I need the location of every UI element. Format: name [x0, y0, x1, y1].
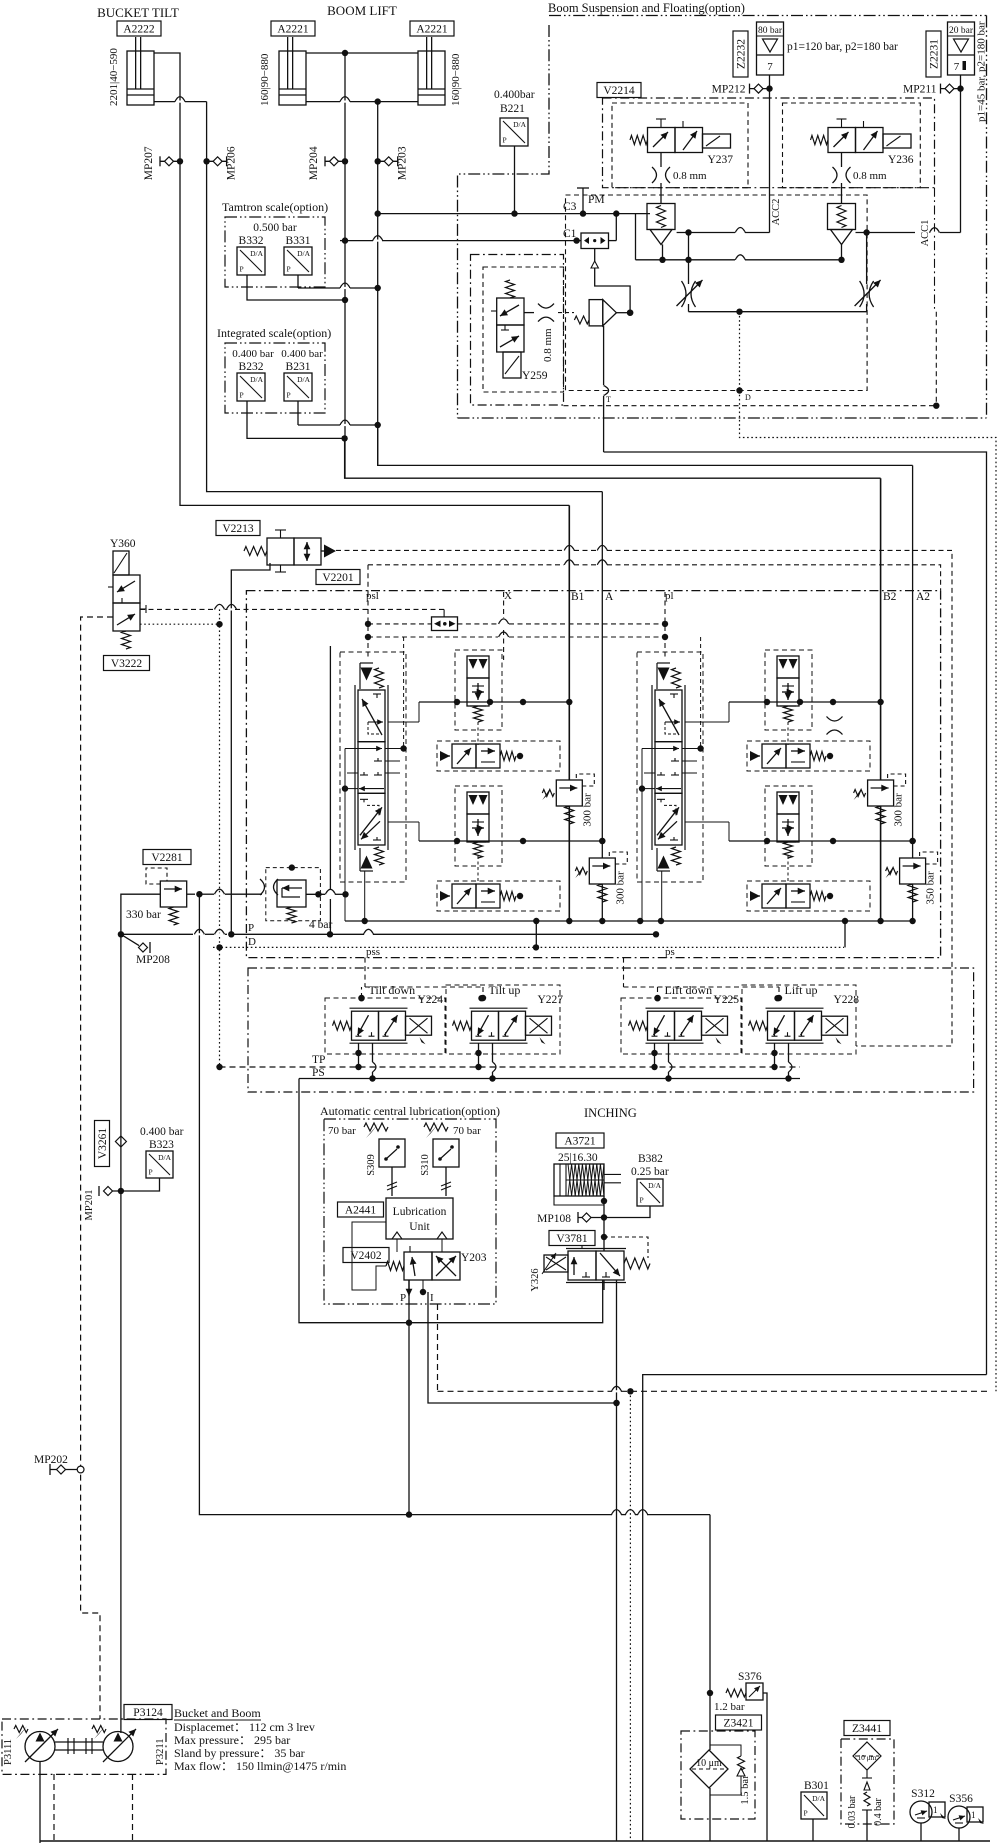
valve Tilt up: [453, 983, 564, 1044]
wire B221 down to C3: [514, 146, 516, 214]
port relief valve lower 300 bar: [575, 852, 627, 905]
svg-text:D/A: D/A: [250, 249, 264, 258]
svg-text:A2441: A2441: [345, 1205, 377, 1217]
svg-text:P: P: [400, 1292, 406, 1304]
valve 4 bar: [266, 864, 333, 931]
svg-text:1: 1: [933, 1805, 938, 1815]
svg-text:pl: pl: [665, 590, 674, 602]
bypass 1.5 bar: [738, 1756, 745, 1770]
wire poppet2 output to ACC1: [856, 232, 916, 234]
svg-text:Tamtron scale(option): Tamtron scale(option): [222, 200, 328, 214]
svg-text:MP203: MP203: [397, 146, 409, 180]
wire boom piston-side rail y102 with crossing: [306, 101, 340, 103]
svg-text:ACC1: ACC1: [920, 220, 931, 247]
wire accumulator2 down ACC1: [960, 75, 962, 233]
label A2221 (right): [410, 21, 454, 36]
svg-text:PS: PS: [312, 1067, 325, 1079]
test point MP212: [712, 84, 770, 96]
orifice right module: [827, 717, 843, 722]
wire spool left loop: [641, 749, 643, 789]
wire A trunk through lower relief: [601, 492, 603, 858]
svg-text:2201|40−590: 2201|40−590: [108, 48, 120, 106]
wire drain to filter x710: [709, 1515, 711, 1750]
port relief valve lower 350 bar: [886, 852, 938, 905]
wire module rail lower y841: [419, 840, 602, 842]
svg-text:Y228: Y228: [834, 994, 860, 1006]
svg-text:0.03 bar: 0.03 bar: [847, 1795, 858, 1828]
wire spool left loop down to tank rail: [344, 789, 346, 921]
svg-text:0.8 mm: 0.8 mm: [853, 170, 887, 182]
wire bucket rod-side to node x180: [154, 53, 180, 161]
sensor B232: [237, 373, 265, 401]
svg-text:160|90−880: 160|90−880: [450, 53, 462, 106]
svg-text:0.4 bar: 0.4 bar: [873, 1797, 884, 1825]
switch S309: [379, 1139, 405, 1167]
wire right spool bottom to rail: [661, 871, 663, 921]
dashed box anti-cav upper: [747, 741, 870, 771]
svg-text:10 μm: 10 μm: [696, 1758, 722, 1769]
box Tilt up dashed: [446, 985, 560, 1054]
wire tank rail y921: [345, 920, 913, 922]
svg-text:Z3441: Z3441: [852, 1723, 882, 1735]
anti-cavitation valve lower: [440, 884, 523, 908]
svg-text:0.500 bar: 0.500 bar: [253, 222, 297, 234]
port relief valve upper 300 bar: [854, 774, 906, 827]
box Lift up dashed: [742, 985, 856, 1054]
wire inching left port down: [603, 1280, 605, 1290]
cylinder A2222 bucket tilt: [127, 37, 154, 105]
pilot dashed to spool mid port: [700, 637, 702, 749]
wire cartridge verticals: [477, 722, 479, 745]
orifice 0.8mm for Y236: [841, 153, 843, 168]
flow valve branch ACC2: [677, 280, 703, 307]
svg-text:B2: B2: [883, 591, 897, 603]
svg-text:MP201: MP201: [84, 1190, 95, 1221]
svg-text:7: 7: [954, 61, 960, 73]
wire cartridge verticals: [787, 722, 789, 745]
wire inching valve outputs: [603, 1279, 605, 1281]
svg-text:S312: S312: [911, 1788, 935, 1800]
svg-text:350 bar: 350 bar: [925, 871, 937, 905]
svg-text:70 bar: 70 bar: [453, 1125, 481, 1137]
orifice before 4 bar valve: [260, 879, 265, 895]
svg-text:V2281: V2281: [151, 852, 183, 864]
svg-text:P3124: P3124: [133, 1707, 163, 1719]
svg-text:S356: S356: [949, 1793, 973, 1805]
flow control valve right: [866, 233, 868, 285]
dashed box anti-cav upper: [437, 741, 560, 771]
svg-text:Bucket and Boom: Bucket and Boom: [174, 1706, 261, 1720]
svg-text:B332: B332: [239, 235, 264, 247]
svg-text:Max pressure： 295 bar: Max pressure： 295 bar: [174, 1733, 290, 1747]
box V2214 dash-dot: [603, 98, 935, 188]
wire 4bar output to spool loop: [306, 893, 325, 895]
valve Y203: [386, 1246, 487, 1280]
svg-text:D: D: [745, 393, 751, 402]
flow control valve left: [688, 233, 690, 285]
gauge S356: [948, 1793, 984, 1828]
svg-text:MP207: MP207: [143, 146, 155, 180]
svg-text:MP211: MP211: [903, 84, 937, 96]
wire P drain down: [408, 1323, 410, 1515]
relief valve V2281 330 bar: [126, 868, 187, 925]
svg-text:D/A: D/A: [297, 375, 311, 384]
label Z2231: [926, 31, 941, 77]
svg-text:0.400 bar: 0.400 bar: [140, 1126, 184, 1138]
svg-text:p1=45 bar, p2=180 bar: p1=45 bar, p2=180 bar: [976, 21, 988, 122]
box Y259 dashed: [483, 267, 564, 392]
svg-text:B232: B232: [239, 361, 264, 373]
wire module rail lower y841: [729, 840, 913, 842]
anti-cavitation valve upper: [750, 744, 833, 768]
wire tank line bottom: [40, 1840, 990, 1842]
orifice box near X: [432, 617, 458, 631]
main spool valve: [342, 663, 400, 871]
svg-text:B382: B382: [638, 1153, 663, 1165]
pilot dashed feeds to valves: [364, 958, 366, 987]
wire right T return corner: [643, 1375, 987, 1841]
svg-text:D/A: D/A: [158, 1153, 172, 1162]
wire B232 to node x345 y438: [247, 401, 345, 438]
svg-text:300 bar: 300 bar: [614, 871, 626, 905]
valve Y259: [491, 280, 548, 382]
svg-text:Boom Suspension and Floatin: Boom Suspension and Floating(option): [548, 1, 745, 15]
svg-text:S309: S309: [366, 1154, 377, 1176]
label V2281: [143, 850, 191, 865]
svg-text:X: X: [504, 590, 512, 602]
wire B231 to A2 line y425: [297, 401, 299, 425]
svg-text:INCHING: INCHING: [584, 1106, 637, 1120]
label V2402: [343, 1248, 389, 1263]
svg-text:BOOM LIFT: BOOM LIFT: [327, 3, 397, 18]
wire relief input from x120: [121, 894, 160, 934]
svg-text:D/A: D/A: [250, 375, 264, 384]
box Lubrication Unit: [386, 1198, 453, 1239]
dashed bottom rail y405.7: [564, 405, 937, 407]
svg-text:Y225: Y225: [714, 994, 740, 1006]
svg-text:Y224: Y224: [418, 994, 444, 1006]
svg-text:MP206: MP206: [226, 146, 238, 180]
box Lift down dashed: [621, 998, 741, 1054]
port PM: [582, 188, 584, 214]
box Y237 dashed: [612, 103, 748, 188]
filter element Z3421: [690, 1750, 728, 1788]
wire P riser x330 into block: [329, 646, 331, 889]
dashed box anti-cav lower: [437, 881, 560, 911]
svg-text:10 μm: 10 μm: [857, 1753, 876, 1762]
label A3721: [556, 1133, 604, 1148]
svg-text:Z2232: Z2232: [736, 39, 748, 69]
label A2221 (left): [271, 21, 315, 36]
svg-text:A2221: A2221: [277, 24, 309, 36]
svg-text:P: P: [240, 391, 244, 400]
pilot dashed to spool mid port: [403, 637, 405, 749]
svg-text:20 bar: 20 bar: [949, 26, 974, 36]
test point MP203: [378, 146, 409, 180]
svg-text:P: P: [149, 1168, 153, 1177]
wire B382 to node: [604, 1206, 650, 1218]
orifice 0.8mm for Y237: [660, 153, 662, 168]
V2201 main box dash-dot: [246, 591, 940, 958]
svg-text:0.8 mm: 0.8 mm: [542, 328, 554, 362]
label V2201: [316, 570, 360, 585]
wire orifice to C3 node: [615, 214, 617, 241]
svg-text:B231: B231: [286, 361, 311, 373]
dashed rail y637 between modules: [368, 636, 498, 638]
cylinder A2221 boom lift left: [279, 37, 306, 105]
box Y236 dashed: [783, 103, 921, 188]
wire module rail upper y702: [419, 701, 569, 703]
svg-text:T: T: [606, 395, 611, 404]
valve Y326 inching: [530, 1246, 650, 1292]
svg-text:P: P: [240, 265, 244, 274]
svg-text:P: P: [503, 136, 507, 145]
wire P into spools: [655, 933, 657, 935]
label V3261: [95, 1121, 110, 1167]
dashed box around upper cartridge: [765, 650, 812, 730]
wire bottom rail y311.7: [689, 311, 867, 313]
svg-text:Automatic central lubricatio: Automatic central lubrication(option): [320, 1104, 500, 1118]
svg-text:MP204: MP204: [308, 146, 320, 180]
svg-text:330 bar: 330 bar: [126, 909, 161, 921]
svg-text:0.400bar: 0.400bar: [494, 89, 535, 101]
label V2213: [216, 521, 260, 536]
svg-text:P: P: [287, 265, 291, 274]
svg-text:0.25 bar: 0.25 bar: [631, 1166, 669, 1178]
svg-text:Z3421: Z3421: [723, 1718, 753, 1730]
svg-text:V2213: V2213: [222, 523, 254, 535]
svg-text:ps: ps: [665, 946, 675, 958]
pilot dashed Y360 to psl: [140, 608, 214, 610]
svg-text:P: P: [287, 391, 291, 400]
label Z3441: [844, 1721, 890, 1736]
svg-text:P: P: [804, 1809, 808, 1818]
pilot valve tank ports to TP/PS: [358, 1043, 360, 1067]
poppet valve at Y259 output: [574, 300, 616, 326]
svg-text:A2221: A2221: [416, 24, 448, 36]
dashed pilot box around spool: [637, 652, 703, 882]
wire S376 right down to tank: [763, 1693, 767, 1841]
port relief valve upper 300 bar: [542, 774, 594, 827]
wire lube loop left: [352, 1222, 386, 1290]
valve Lift down: [629, 983, 740, 1044]
wire unit to valve: [396, 1239, 398, 1252]
node D on inner box: [736, 387, 742, 393]
wire bucket piston-side to node x206 with crossing: [154, 101, 175, 103]
wire I line right: [428, 1292, 617, 1403]
wire spool to rails: [685, 721, 729, 723]
svg-text:Lift down: Lift down: [665, 983, 713, 997]
filter Z3421 box: [681, 1731, 755, 1819]
pump P3111: [14, 1726, 58, 1763]
svg-text:Y237: Y237: [708, 154, 734, 166]
pilot dashed from V2213 right to x956: [336, 549, 564, 551]
svg-text:I: I: [430, 1292, 434, 1304]
wire x120 pump pressure line: [120, 934, 122, 1733]
wire spool left loop down to tank rail: [641, 789, 643, 921]
svg-text:Displacemet： 112 cm 3 lrev: Displacemet： 112 cm 3 lrev: [174, 1720, 315, 1734]
svg-text:Y203: Y203: [461, 1252, 487, 1264]
label V3222: [104, 656, 150, 671]
inching unit A3721 spring stack: [554, 1164, 621, 1205]
svg-text:Integrated scale(option): Integrated scale(option): [217, 326, 331, 340]
gauge S312: [910, 1788, 946, 1823]
check cartridge lower: [777, 792, 799, 858]
wire relief output to 4bar: [187, 893, 195, 895]
svg-text:Sland by pressure： 35 bar: Sland by pressure： 35 bar: [174, 1746, 305, 1760]
svg-text:V3781: V3781: [556, 1233, 588, 1245]
svg-text:V3261: V3261: [97, 1128, 109, 1160]
test point MP211: [903, 84, 960, 96]
check cartridge lower: [467, 792, 489, 858]
svg-text:MP212: MP212: [712, 84, 746, 96]
wire boom B2 feed y478 to x880: [345, 438, 881, 478]
wire left spool bottom to rail: [364, 871, 366, 921]
label Z2232: [733, 31, 748, 77]
valve V2213: [244, 530, 336, 572]
pilot dashed pl down to right spool: [664, 592, 666, 660]
accumulator 20 bar: [948, 22, 975, 75]
svg-text:A3721: A3721: [564, 1136, 596, 1148]
sensor B231: [284, 373, 312, 401]
wire B323 to x120: [121, 1178, 160, 1191]
wire accumulator1 down ACC2: [769, 75, 771, 233]
poppet valve Y237 branch: [647, 204, 675, 245]
wire A trunk through lower relief: [912, 465, 914, 858]
svg-text:TP: TP: [312, 1054, 325, 1066]
poppet valve Y236 branch: [828, 204, 856, 245]
test point V3261 diamond: [115, 1136, 126, 1147]
pump P3211: [92, 1726, 136, 1763]
sensor B332: [237, 247, 265, 275]
svg-text:MP202: MP202: [34, 1454, 68, 1466]
wire poppet output to T: [616, 312, 630, 314]
switch S310: [433, 1139, 459, 1167]
line ACC1 dash-dot: [934, 188, 936, 312]
dashed box around lower cartridge: [455, 786, 502, 866]
wire module rail upper y702: [729, 701, 881, 703]
svg-text:Lubrication: Lubrication: [393, 1206, 447, 1218]
label A2441: [338, 1202, 384, 1217]
wire boom rod-side rail y53: [306, 52, 418, 54]
svg-text:A2222: A2222: [123, 24, 155, 36]
svg-text:P3211: P3211: [155, 1739, 166, 1765]
anti-cavitation valve upper: [440, 744, 523, 768]
svg-text:Y227: Y227: [538, 994, 564, 1006]
svg-text:0.8 mm: 0.8 mm: [673, 170, 707, 182]
svg-text:B221: B221: [500, 103, 525, 115]
dashed box around upper cartridge: [455, 650, 502, 730]
label V2214: [597, 83, 641, 98]
valve Lift up: [749, 983, 860, 1044]
wire poppet1 output to ACC2: [677, 232, 735, 234]
svg-text:D/A: D/A: [648, 1181, 662, 1190]
dashed rail y623.9 between modules: [368, 623, 432, 625]
orifice box on C1: [581, 233, 609, 249]
dashed vertical x936 to flow valve right: [935, 312, 937, 406]
svg-text:S376: S376: [738, 1671, 762, 1683]
wire switches down with break: [391, 1167, 393, 1196]
wire poppet bottoms rail y259.8: [615, 213, 617, 215]
box Tilt down dashed: [325, 998, 445, 1054]
svg-text:B1: B1: [571, 591, 585, 603]
svg-text:p1=120 bar, p2=180 bar: p1=120 bar, p2=180 bar: [787, 41, 898, 53]
svg-text:P3111: P3111: [3, 1739, 14, 1765]
svg-text:V2201: V2201: [322, 572, 354, 584]
svg-text:D/A: D/A: [812, 1794, 826, 1803]
wire node x345 down: [344, 161, 346, 478]
dotted from Y360 to TP vertical: [140, 623, 220, 625]
dotted vertical x219 to TP: [219, 609, 221, 1067]
wire V2213 to P line: [231, 563, 270, 934]
wire spool left loop: [344, 749, 346, 789]
svg-text:0.400 bar: 0.400 bar: [281, 348, 323, 360]
orifice 0.8mm for Y259: [524, 312, 534, 314]
svg-text:Y360: Y360: [110, 538, 136, 550]
wire node x206 down to A corner: [207, 161, 603, 492]
pilot dashed y564.8 to x940: [368, 564, 564, 566]
svg-text:Y236: Y236: [888, 154, 914, 166]
test point MP208: [121, 934, 139, 945]
svg-text:B323: B323: [149, 1139, 174, 1151]
svg-text:B301: B301: [804, 1780, 829, 1792]
svg-text:P: P: [640, 1196, 644, 1205]
svg-text:Unit: Unit: [409, 1221, 430, 1233]
inner dashed box boom suspension: [566, 195, 868, 391]
label A2222: [117, 21, 161, 36]
pilot dashed X down: [503, 592, 505, 618]
check cartridge upper: [467, 656, 489, 722]
svg-text:Y259: Y259: [522, 370, 548, 382]
wire node x378 down: [377, 161, 379, 465]
pump box dash-dot: [2, 1719, 166, 1774]
dashed box around lower cartridge: [765, 786, 812, 866]
svg-text:S310: S310: [420, 1154, 431, 1176]
solid supply box lubrication: [299, 1079, 603, 1323]
svg-text:D/A: D/A: [513, 120, 527, 129]
svg-text:80 bar: 80 bar: [758, 26, 783, 36]
valve Tilt down: [333, 983, 444, 1044]
valve Y237 solenoid 3/2: [630, 119, 733, 166]
filter element Z3441: [853, 1742, 881, 1770]
dashed pilot box around spool: [340, 652, 406, 882]
cylinder A2221 boom lift right: [418, 37, 445, 105]
svg-text:D/A: D/A: [297, 249, 311, 258]
pump shaft: [55, 1741, 103, 1743]
wire filter to tank: [709, 1788, 711, 1841]
main spool valve: [639, 663, 697, 871]
wire dashed return y1391: [438, 1390, 613, 1392]
svg-text:Tilt down: Tilt down: [369, 983, 416, 997]
label Z3421: [716, 1715, 762, 1730]
svg-text:MP208: MP208: [136, 954, 170, 966]
wire node x180 down to B1 corner: [180, 161, 569, 505]
wire x536 down to D line: [535, 921, 537, 947]
valve Y236 solenoid 3/2: [811, 119, 914, 166]
pilot dashed V3781: [604, 1237, 648, 1258]
wire C1 branch down to Y259 poppet: [594, 249, 596, 263]
svg-text:V3222: V3222: [111, 658, 143, 670]
svg-text:70 bar: 70 bar: [328, 1125, 356, 1137]
pilot dashed psl down to spool: [367, 592, 369, 660]
test point MP108: [578, 1217, 604, 1219]
test point MP204: [308, 146, 345, 180]
pilot dashed from Y360 left down x80: [81, 617, 113, 1719]
svg-text:0.400 bar: 0.400 bar: [232, 348, 274, 360]
sensor B331: [284, 247, 312, 275]
filter Z3441 box: [841, 1739, 894, 1824]
wire motor down: [603, 1196, 605, 1251]
